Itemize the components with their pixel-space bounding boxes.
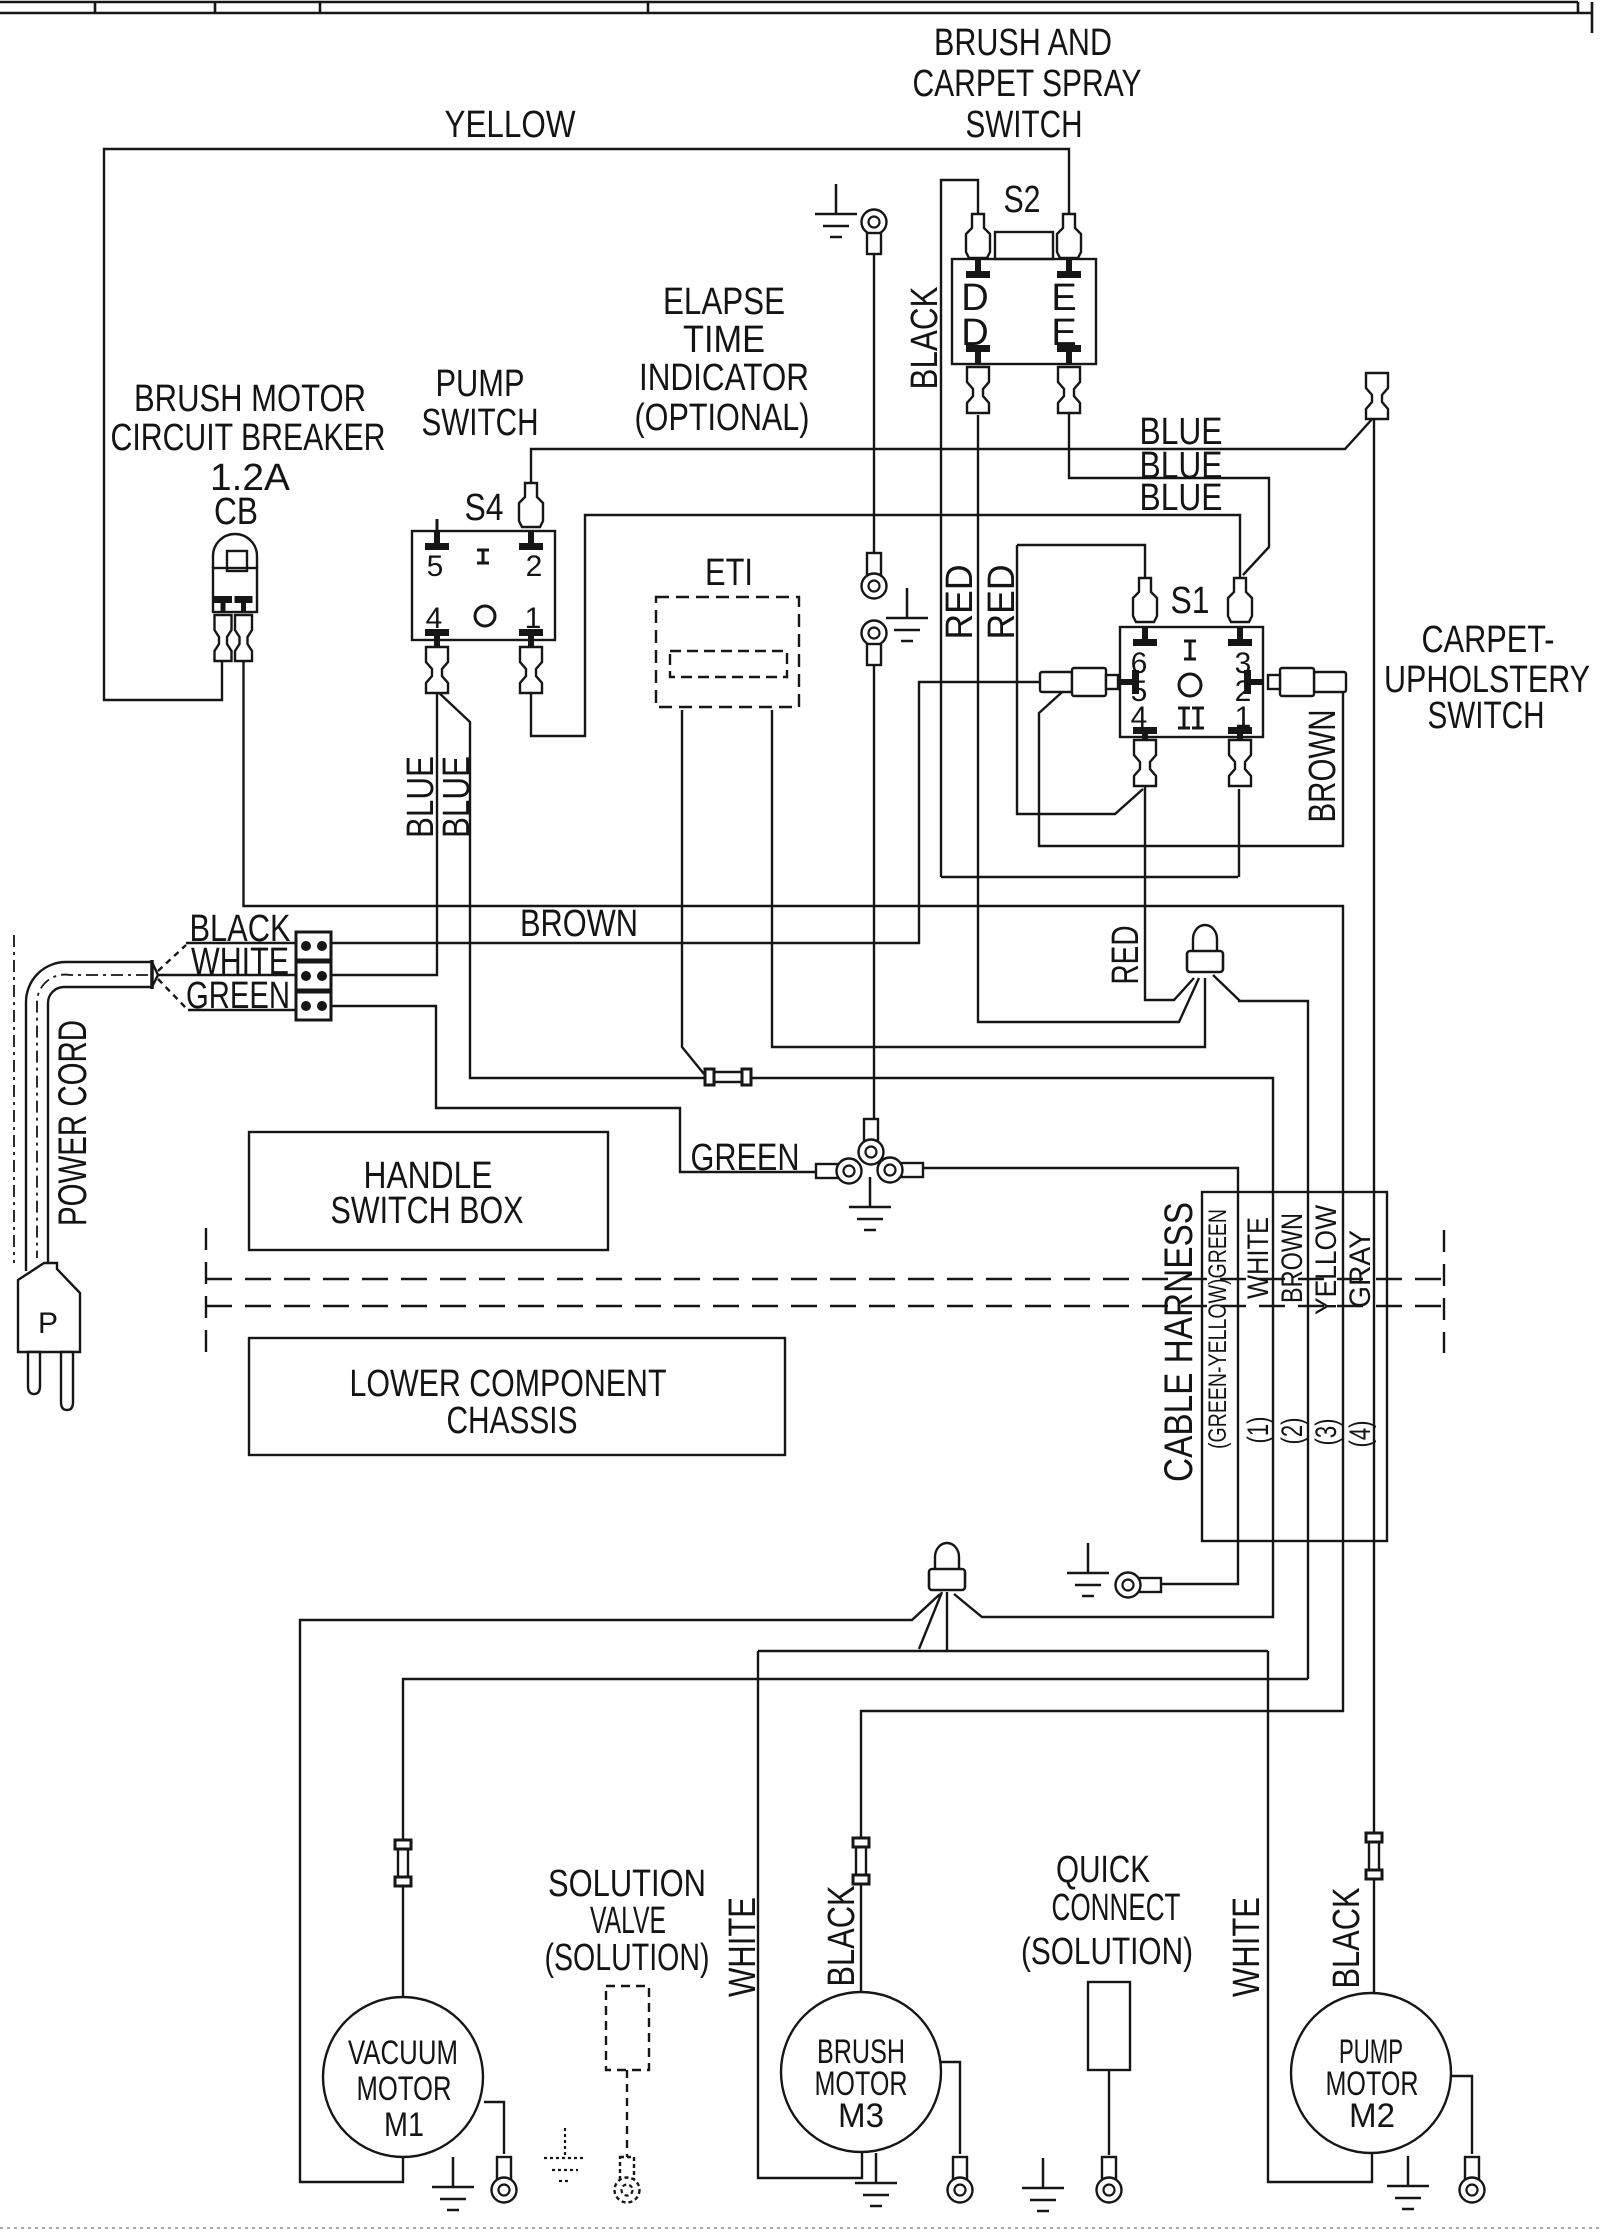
svg-text:2: 2 [526, 550, 543, 583]
svg-text:RED: RED [1105, 926, 1147, 985]
svg-text:SOLUTION: SOLUTION [548, 1863, 706, 1905]
svg-text:BLACK: BLACK [821, 1886, 863, 1987]
svg-text:(GREEN-YELLOW)GREEN: (GREEN-YELLOW)GREEN [1204, 1209, 1232, 1449]
svg-text:CABLE HARNESS: CABLE HARNESS [1157, 1202, 1201, 1482]
svg-text:(4): (4) [1344, 1421, 1377, 1448]
svg-text:S1: S1 [1171, 580, 1210, 622]
svg-text:M1: M1 [384, 2106, 424, 2144]
svg-text:S2: S2 [1004, 179, 1041, 221]
svg-text:CHASSIS: CHASSIS [447, 1400, 578, 1442]
svg-text:YELLOW: YELLOW [445, 104, 576, 146]
svg-text:INDICATOR: INDICATOR [639, 357, 809, 399]
svg-text:GREEN: GREEN [691, 1137, 800, 1179]
svg-text:SWITCH: SWITCH [1428, 695, 1545, 737]
svg-text:5: 5 [427, 550, 444, 583]
svg-text:BLACK: BLACK [1326, 1888, 1368, 1989]
svg-text:1: 1 [525, 602, 542, 635]
svg-text:(SOLUTION): (SOLUTION) [1021, 1931, 1193, 1973]
svg-text:CB: CB [214, 491, 258, 533]
svg-text:GREEN: GREEN [186, 975, 290, 1017]
svg-text:RED: RED [981, 565, 1023, 640]
svg-text:ETI: ETI [705, 552, 753, 594]
svg-text:(2): (2) [1276, 1418, 1309, 1445]
svg-text:MOTOR: MOTOR [357, 2070, 452, 2108]
svg-text:M3: M3 [838, 2097, 884, 2135]
svg-text:POWER CORD: POWER CORD [51, 1020, 95, 1226]
svg-text:BRUSH MOTOR: BRUSH MOTOR [134, 378, 366, 420]
svg-text:WHITE: WHITE [722, 1897, 764, 1997]
svg-text:GRAY: GRAY [1344, 1230, 1377, 1308]
svg-text:ELAPSE: ELAPSE [663, 281, 785, 323]
svg-text:SWITCH: SWITCH [966, 104, 1083, 146]
svg-text:BLUE: BLUE [436, 756, 478, 838]
svg-text:BLACK: BLACK [904, 287, 946, 390]
svg-text:BROWN: BROWN [1276, 1213, 1309, 1303]
svg-text:4: 4 [426, 602, 443, 635]
svg-text:WHITE: WHITE [1242, 1217, 1275, 1299]
svg-text:1: 1 [1235, 701, 1252, 734]
svg-text:P: P [38, 1307, 58, 1340]
svg-text:(3): (3) [1310, 1419, 1343, 1446]
svg-text:CARPET-: CARPET- [1422, 619, 1555, 661]
svg-text:E: E [1051, 312, 1076, 354]
svg-text:QUICK: QUICK [1056, 1849, 1150, 1891]
svg-text:(SOLUTION): (SOLUTION) [545, 1937, 710, 1979]
svg-text:WHITE: WHITE [1226, 1897, 1268, 1997]
svg-text:RED: RED [939, 565, 981, 640]
svg-text:CIRCUIT BREAKER: CIRCUIT BREAKER [111, 417, 386, 459]
svg-text:BRUSH AND: BRUSH AND [934, 22, 1112, 64]
svg-text:CARPET SPRAY: CARPET SPRAY [913, 63, 1142, 105]
svg-text:PUMP: PUMP [436, 363, 525, 405]
svg-text:YELLOW: YELLOW [1310, 1204, 1343, 1315]
svg-text:TIME: TIME [683, 319, 765, 361]
svg-text:SWITCH BOX: SWITCH BOX [331, 1190, 524, 1232]
svg-text:BROWN: BROWN [1302, 710, 1344, 823]
svg-text:M2: M2 [1349, 2097, 1395, 2135]
svg-text:4: 4 [1131, 701, 1148, 734]
svg-text:LOWER COMPONENT: LOWER COMPONENT [350, 1363, 667, 1405]
svg-text:VACUUM: VACUUM [348, 2034, 458, 2072]
svg-text:(1): (1) [1242, 1417, 1275, 1444]
svg-text:BLUE: BLUE [1140, 477, 1223, 519]
svg-text:S4: S4 [465, 487, 504, 529]
svg-text:(OPTIONAL): (OPTIONAL) [635, 397, 810, 439]
svg-text:SWITCH: SWITCH [422, 402, 539, 444]
svg-text:D: D [961, 312, 988, 354]
svg-text:BROWN: BROWN [520, 903, 638, 945]
svg-text:CONNECT: CONNECT [1052, 1887, 1181, 1929]
svg-text:VALVE: VALVE [590, 1900, 666, 1942]
